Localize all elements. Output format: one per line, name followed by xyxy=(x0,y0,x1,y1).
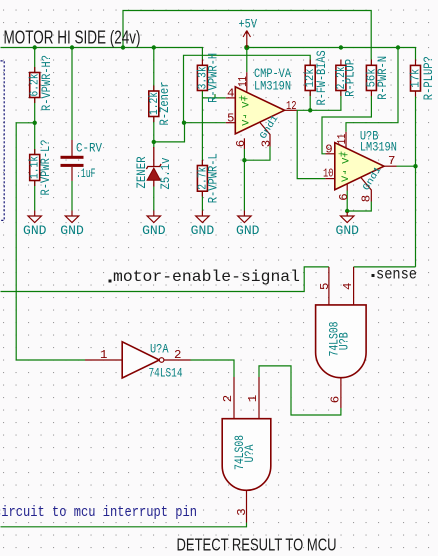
wire U?A output to 2.2k xyxy=(297,91,341,111)
wire U?B output xyxy=(397,165,416,167)
junction +5V xyxy=(244,45,249,50)
junction U?B gnd pins xyxy=(345,209,349,213)
resistor R-FW-BIAS 12k xyxy=(303,50,329,105)
junction 2.2k top xyxy=(339,45,343,49)
svg-text:6: 6 xyxy=(329,396,343,403)
svg-text:.1uF: .1uF xyxy=(76,167,96,181)
wire zener column xyxy=(153,48,155,92)
svg-text:LM319N: LM319N xyxy=(254,79,291,93)
svg-text:7: 7 xyxy=(388,154,395,168)
svg-text:GND: GND xyxy=(142,224,166,238)
svg-text:R-VPWR-H: R-VPWR-H xyxy=(207,53,221,103)
svg-text:V+: V+ xyxy=(341,152,352,164)
svg-text:3: 3 xyxy=(260,140,274,147)
resistor R2 1.1k xyxy=(28,140,53,196)
junction pin 5 node xyxy=(182,121,186,125)
svg-text:U?B: U?B xyxy=(338,332,352,350)
zener diode Z5.1v xyxy=(135,147,173,190)
net label sense xyxy=(372,274,375,277)
svg-text:6: 6 xyxy=(337,193,351,200)
svg-text:8: 8 xyxy=(360,195,374,202)
wire zener tap jog xyxy=(154,123,185,142)
svg-text:Z5.1v: Z5.1v xyxy=(159,157,173,189)
resistor R-VPWR-L 2.7k xyxy=(195,153,220,203)
ground U?B xyxy=(341,212,354,223)
wire U?A output to U?B pin 10 xyxy=(297,110,325,178)
junction U?A output xyxy=(308,108,312,112)
svg-text:4: 4 xyxy=(227,87,234,101)
svg-text:R-PWR-N: R-PWR-N xyxy=(376,56,390,100)
svg-text:R-VPWR-L: R-VPWR-L xyxy=(207,153,221,203)
svg-text:11: 11 xyxy=(236,76,250,87)
svg-text:C-RV: C-RV xyxy=(76,141,102,155)
op-amp U?A CMP-VA LM319N xyxy=(226,72,297,149)
svg-text:ZENER: ZENER xyxy=(135,156,149,188)
wire motor-enable-signal xyxy=(1,267,329,292)
wire 24v bus xyxy=(1,48,203,60)
svg-text:V-: V- xyxy=(241,114,252,126)
junction R1 bottom tap xyxy=(33,121,37,125)
wire U?B pin8 to GND joint xyxy=(347,202,371,212)
AND gate U?B 74LS08 xyxy=(316,267,367,408)
svg-text:4: 4 xyxy=(341,283,355,290)
svg-text:2: 2 xyxy=(221,395,235,402)
svg-text:17k: 17k xyxy=(409,69,423,88)
svg-text:R-PLUP: R-PLUP xyxy=(343,59,357,97)
wire 17k sense rail xyxy=(415,97,417,267)
svg-text:5: 5 xyxy=(227,112,234,126)
svg-text:+5V: +5V xyxy=(239,18,258,32)
svg-text:motor-enable-signal: motor-enable-signal xyxy=(113,268,300,286)
junction U?A gnd pins xyxy=(242,158,246,162)
svg-text:sense: sense xyxy=(376,265,417,283)
junction pin11 branch xyxy=(396,45,400,49)
svg-text:GND: GND xyxy=(60,224,83,238)
wire R1 column xyxy=(34,48,36,73)
svg-text:9: 9 xyxy=(325,143,332,157)
svg-text:R-PLUP?: R-PLUP? xyxy=(422,56,436,100)
ground under R2 xyxy=(28,211,41,223)
svg-text:U?A: U?A xyxy=(150,343,169,357)
wire gate A output to mcu xyxy=(1,523,247,527)
sheet boundary dashed xyxy=(1,61,5,221)
resistor R-VPWR-H 3.3k xyxy=(195,53,220,103)
resistor R-Zener 1.2k xyxy=(147,82,172,126)
wire to U?A pin 5 xyxy=(184,122,226,124)
junction R-Zener top xyxy=(152,45,156,49)
op-amp U?B LM319N xyxy=(325,132,396,202)
junction C-RV top xyxy=(70,45,74,49)
wire +5V to U?B pin 11 xyxy=(346,48,398,132)
resistor R1 6.2k xyxy=(28,55,54,111)
svg-text:6: 6 xyxy=(234,140,248,147)
svg-text:R-FW-BIAS: R-FW-BIAS xyxy=(315,50,329,105)
svg-text:1: 1 xyxy=(246,395,260,402)
svg-text:1: 1 xyxy=(100,348,107,362)
wire 56k bottom to pin 9 net xyxy=(322,96,371,154)
wire U?A pin3 to GND joint xyxy=(244,147,270,161)
resistor R-PLUP? 17k xyxy=(409,56,437,100)
wire 12k bottom to output xyxy=(309,91,311,111)
svg-text:5: 5 xyxy=(318,283,332,290)
ground under 2.7k xyxy=(196,211,209,223)
svg-text:LM319N: LM319N xyxy=(360,140,397,154)
wire +5V to U?A pin 11 xyxy=(246,48,248,73)
svg-text:11: 11 xyxy=(335,134,349,145)
inverter U?A 74LS14 xyxy=(85,342,191,378)
svg-text:R-VPWR-L?: R-VPWR-L? xyxy=(39,140,53,196)
wire divider tap to U?A pin 4 xyxy=(202,97,225,99)
power +5V xyxy=(243,31,250,48)
wire U?A pin6 to GND xyxy=(243,149,245,211)
junction U?B output xyxy=(413,164,417,168)
svg-text:R-Zener: R-Zener xyxy=(158,82,172,126)
svg-text:GND: GND xyxy=(23,224,47,238)
wire top 24v loop xyxy=(123,11,371,60)
net label motor-enable-signal xyxy=(109,280,112,283)
wire capacitor column xyxy=(71,48,73,141)
capacitor C-RV xyxy=(61,140,103,181)
svg-text:V+: V+ xyxy=(242,96,253,108)
AND gate U?A 74LS08 xyxy=(222,377,271,523)
svg-text:GND: GND xyxy=(336,224,360,238)
resistor R-PWR-N 56k xyxy=(364,56,389,100)
svg-text:V-: V- xyxy=(341,170,352,182)
wire 56k top stub xyxy=(370,60,372,66)
wire U?B pin6 to GND xyxy=(346,191,348,213)
ground under C-RV xyxy=(65,211,78,223)
svg-text:GND: GND xyxy=(236,224,260,238)
svg-text:DETECT RESULT TO MCU: DETECT RESULT TO MCU xyxy=(177,535,337,555)
svg-text:10: 10 xyxy=(323,167,334,181)
junction 24v loop xyxy=(121,45,125,49)
wire feedback top xyxy=(184,55,311,122)
svg-text:MOTOR HI SIDE (24v): MOTOR HI SIDE (24v) xyxy=(4,28,141,48)
svg-text:2: 2 xyxy=(174,348,181,362)
svg-text:circuit to mcu interrupt pin: circuit to mcu interrupt pin xyxy=(0,503,197,521)
wire R1 tap to inverter input xyxy=(16,123,85,360)
wire sense to gate pin 4 xyxy=(354,266,416,268)
svg-text:3: 3 xyxy=(235,508,249,515)
svg-text:R-VPWR-H?: R-VPWR-H? xyxy=(40,55,54,111)
svg-text:GND: GND xyxy=(191,224,215,238)
wire gate B output to gate A pin 1 xyxy=(259,366,341,415)
ground under zener xyxy=(147,211,160,223)
resistor R-PLUP 2.2k xyxy=(334,59,357,97)
wire inverter output to gate A pin 2 xyxy=(191,360,235,377)
wire +5V bus xyxy=(247,48,416,60)
junction zener node xyxy=(152,140,156,144)
svg-text:12: 12 xyxy=(286,99,297,113)
ground U?A xyxy=(238,211,251,223)
junction R1 top xyxy=(33,45,37,49)
svg-text:U?A: U?A xyxy=(243,444,257,462)
svg-text:74LS14: 74LS14 xyxy=(149,367,183,381)
wire 3.3k to 2.7k divider xyxy=(201,91,203,166)
